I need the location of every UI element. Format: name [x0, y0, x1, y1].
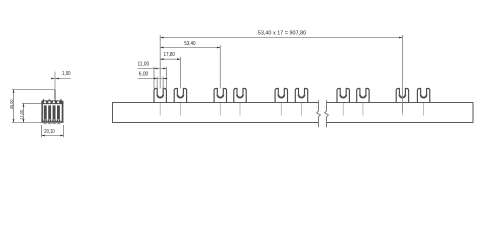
profile foot 3	[52, 123, 55, 124]
dim 20,10 left arrow	[42, 135, 45, 137]
svg-text:53,40: 53,40	[184, 41, 196, 47]
svg-text:6,00: 6,00	[139, 72, 149, 78]
extension line tooth9 centre	[401, 35, 403, 112]
fork tooth 4 (group 2)	[234, 89, 246, 103]
profile arched top band with peaks	[41, 98, 63, 103]
dim 1,00 line	[51, 78, 70, 80]
profile inner bar 4	[57, 105, 60, 119]
profile inner bar 1	[44, 105, 47, 119]
dim 17,00 bottom arrow	[23, 119, 25, 122]
svg-text:17,00: 17,00	[19, 110, 24, 120]
dim 20,10 line	[42, 135, 64, 137]
dim 30,00 top extension line	[12, 89, 55, 91]
extension line tooth1 slot left	[156, 77, 158, 89]
dim 17,00 top arrow	[23, 104, 25, 107]
profile bottom blob row	[43, 120, 60, 122]
profile foot 4	[57, 123, 60, 124]
arch window 2	[48, 101, 50, 104]
dim 30,00 bottom arrow	[13, 119, 15, 122]
dim 17,80 right arrow	[177, 58, 180, 60]
extension line tooth1 slot right	[162, 77, 164, 89]
dim 907,80 left arrow	[160, 37, 163, 39]
dim 30,00 vertical line	[13, 90, 15, 123]
fork tooth 5 (group 3)	[275, 89, 287, 103]
dim 6,00 line	[138, 78, 168, 80]
fork tooth 10 (group 5)	[417, 89, 429, 103]
dim 20,10 right extension line	[63, 125, 65, 137]
busbar body left segment	[113, 103, 319, 123]
profile foot 2	[48, 123, 51, 124]
dim 11,00 right arrow	[163, 68, 166, 70]
extension line tooth3 centre	[219, 45, 221, 88]
fork tooth 7 (group 4, after break)	[337, 89, 349, 103]
svg-text:20,10: 20,10	[44, 129, 55, 135]
tooth centerline below bar (tooth 5)	[280, 103, 282, 116]
svg-text:1,00: 1,00	[62, 71, 71, 77]
tooth extension line up	[54, 72, 56, 90]
tooth centerline below bar (tooth 2)	[179, 103, 181, 116]
fork tooth 9 (group 5)	[396, 89, 408, 103]
tooth centerline below bar (tooth 8)	[362, 103, 364, 116]
svg-text:11,00: 11,00	[137, 61, 149, 67]
dim 907,80 right arrow	[399, 37, 402, 39]
tooth centerline below bar (tooth 6)	[301, 103, 303, 116]
profile body outer walls	[41, 102, 43, 123]
tooth centerline below bar (tooth 1)	[159, 103, 161, 116]
arch window 3	[53, 101, 55, 104]
dim 20,10 right arrow	[60, 135, 63, 137]
fork tooth 2 (group 1)	[174, 89, 186, 103]
profile foot 1	[44, 123, 47, 124]
tooth centerline below bar (tooth 7)	[342, 103, 344, 116]
dim 30,00 top arrow	[13, 90, 15, 93]
dim 6,00 left arrow	[154, 78, 157, 80]
profile bottom band	[41, 121, 63, 123]
dim 6,00 right arrow	[163, 78, 166, 80]
profile inner bar 2	[48, 105, 51, 119]
arch window 4	[57, 101, 59, 104]
dim 17,80 left arrow	[160, 58, 163, 60]
dim 1,00 left arrow	[51, 78, 54, 80]
dim 53,40 left arrow	[160, 47, 163, 49]
profile inner bar 3	[53, 105, 56, 119]
tooth centerline below bar (tooth 9)	[401, 103, 403, 116]
busbar body right segment	[327, 103, 474, 123]
fork tooth 1 (group 1)	[154, 89, 166, 103]
tooth edge (1mm) in section	[54, 90, 56, 100]
svg-text:53,40 x 17 = 907,80: 53,40 x 17 = 907,80	[258, 30, 307, 36]
arch window 1	[44, 101, 46, 103]
svg-text:17,80: 17,80	[164, 52, 176, 58]
tooth centerline below bar (tooth 4)	[239, 103, 241, 116]
dim 53,40 line	[160, 47, 220, 49]
svg-text:30,00: 30,00	[9, 99, 14, 109]
tooth centerline below bar (tooth 10)	[423, 103, 425, 116]
tooth centerline below bar (tooth 3)	[219, 103, 221, 116]
dim 53,40 right arrow	[217, 47, 220, 49]
dim 11,00 line	[138, 68, 167, 70]
extension line tooth1 centre (to overall dim)	[159, 35, 161, 89]
profile shoulder line	[41, 103, 63, 105]
dim 17,80 line	[160, 58, 180, 60]
fork tooth 3 (group 2)	[214, 89, 226, 103]
dim 17,00 vertical line	[23, 104, 25, 123]
dim 1,00 right arrow	[56, 78, 59, 80]
extension line tooth1 outer left	[153, 67, 155, 89]
extension line tooth2 centre	[179, 57, 181, 89]
dim 17,00 top extension line	[22, 103, 41, 105]
fork tooth 6 (group 3)	[295, 89, 307, 103]
dim 30,00 bottom extension line	[12, 122, 42, 124]
dim 20,10 left extension line	[41, 125, 43, 137]
extension line tooth1 outer right	[165, 67, 167, 89]
break line left	[317, 100, 321, 127]
dim 11,00 left arrow	[154, 68, 157, 70]
fork tooth 8 (group 4)	[357, 89, 369, 103]
break line right	[325, 100, 329, 127]
dim 907,80 line	[160, 37, 402, 39]
